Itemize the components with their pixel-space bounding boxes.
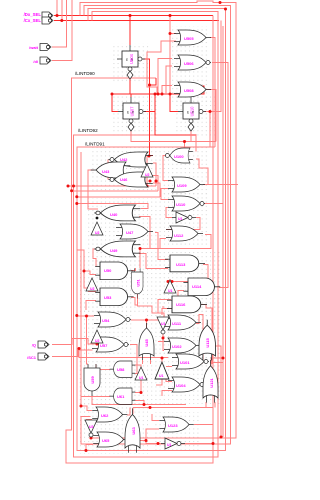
wire T12 in: [156, 379, 162, 385]
inverter T4 up: [86, 278, 98, 291]
svg-text:U42: U42: [120, 157, 128, 162]
svg-text:U504: U504: [129, 53, 134, 64]
svg-text:U54: U54: [102, 318, 110, 323]
inverter T11 up: [135, 367, 147, 380]
and gate U59 vertical down: [84, 364, 100, 396]
svg-text:U46: U46: [120, 177, 128, 182]
wire U65 in1: [91, 436, 93, 439]
wire U100 in1 riser: [195, 135, 197, 152]
wire /wait net: [52, 0, 66, 47]
wire U111 out: [196, 315, 203, 361]
svg-text:U1: U1: [178, 217, 183, 221]
svg-text:/wait: /wait: [29, 45, 39, 50]
wire U58 in1 T11: [135, 365, 141, 367]
svg-text:U45: U45: [144, 339, 149, 347]
svg-text:U2: U2: [95, 339, 100, 343]
inverter T12 up: [155, 362, 169, 379]
and gate U58 mirrored: [110, 361, 136, 377]
svg-text:U100: U100: [174, 154, 184, 159]
input pin /Cx_SEL: [42, 17, 53, 24]
wire U62 in1: [81, 406, 92, 411]
nor gate U100 mirrored: [165, 148, 192, 163]
wire FF1 clock: [129, 16, 131, 46]
wire FF1 Qbar to U42: [150, 85, 154, 156]
wire T3 out: [166, 218, 200, 230]
wire U53 in1: [88, 291, 96, 293]
nor gate U49 mirrored: [94, 241, 140, 257]
flip-flop U504: [117, 45, 145, 79]
svg-text:U65: U65: [102, 438, 110, 443]
svg-text:U40: U40: [110, 212, 118, 217]
wire branch x155: [154, 94, 156, 112]
wire U121 in1: [205, 402, 207, 408]
and gate U114: [183, 278, 220, 296]
wire T7 out: [163, 334, 164, 351]
inverter T2 up: [91, 222, 103, 235]
wire /di net: [52, 0, 72, 61]
wire U121 in2: [214, 402, 216, 408]
input pin /di: [40, 57, 51, 64]
svg-text:U510: U510: [190, 106, 195, 117]
svg-text:U104: U104: [176, 383, 186, 388]
nor gate U40 mirrored: [94, 205, 140, 221]
or gate U508: [174, 82, 211, 97]
wire U506 in1: [158, 59, 172, 95]
wire U112 in2: [160, 239, 166, 249]
wire y190 horizontal: [72, 190, 158, 192]
wire top stub A: [56, 0, 58, 16]
wire U59 out y404: [92, 397, 186, 405]
inverter T7 down: [157, 317, 169, 334]
and gate U116: [167, 296, 207, 313]
wire branch to U59: [87, 316, 89, 364]
wire T1 out: [147, 156, 150, 163]
wire U112 out to U49: [139, 235, 211, 249]
wire U54 in1: [77, 315, 94, 317]
svg-text:U49: U49: [110, 248, 118, 253]
svg-text:U1: U1: [168, 289, 173, 293]
wire U46 in2: [153, 183, 160, 197]
svg-text:U2: U2: [89, 425, 94, 429]
wire FF3 D riser: [170, 94, 178, 112]
wire y196 horizontal: [77, 196, 160, 198]
junction dots: [56, 14, 59, 17]
svg-text:U2: U2: [145, 173, 150, 177]
nor gate U54: [94, 312, 131, 327]
wire U116 in2 jog: [163, 306, 171, 309]
wire T1 in: [146, 177, 148, 186]
wire T3 in: [166, 208, 172, 218]
wire U116 out: [201, 305, 212, 361]
nor gate U62: [92, 407, 127, 422]
wire U61 in1 T11: [135, 380, 141, 393]
and gate U51 vertical down: [131, 268, 143, 298]
wire U47 out to U113: [155, 233, 168, 260]
svg-text:U508: U508: [184, 88, 194, 93]
wire FF2 D input: [112, 94, 118, 112]
svg-text:/LINTD90: /LINTD90: [75, 71, 95, 76]
svg-text:U116: U116: [176, 302, 186, 307]
wire pin2 horizontal: [54, 20, 219, 22]
wire U104 in1: [166, 376, 172, 382]
flip-flop U507: [118, 97, 146, 131]
wire U51 out staircase: [138, 294, 165, 319]
wire U104 in2: [162, 391, 172, 397]
wire T10 out: [185, 443, 213, 445]
wire U102 out: [201, 346, 221, 437]
wire U58 out: [96, 364, 110, 370]
svg-text:U112: U112: [174, 233, 184, 238]
wire FF3 Qbar comb: [204, 21, 221, 112]
nor gate U506: [174, 55, 211, 70]
wire FF2 Qbar: [144, 112, 196, 149]
svg-text:U58: U58: [117, 367, 125, 372]
svg-text:U109: U109: [177, 183, 187, 188]
wire U508 in2: [170, 93, 172, 95]
or gate U65: [93, 432, 128, 447]
svg-text:/Dx_SEL: /Dx_SEL: [24, 12, 42, 17]
wire U40 in1: [77, 204, 148, 209]
wire U115 in tails: [202, 360, 212, 364]
wire U62 out: [127, 408, 130, 416]
wire /Q net: [52, 339, 97, 345]
svg-text:U111: U111: [172, 321, 182, 326]
nor gate U42 mirrored: [108, 152, 152, 167]
wire U53 out: [131, 298, 138, 306]
wire y141 branch down: [184, 142, 186, 149]
nor gate U110: [168, 196, 205, 211]
inverter T3 right: [172, 212, 196, 223]
wire ring net 2: [81, 6, 231, 445]
svg-text:U59: U59: [90, 376, 95, 384]
svg-text:U57: U57: [100, 343, 108, 348]
input pin /wait: [40, 44, 51, 51]
svg-text:U62: U62: [101, 413, 109, 418]
svg-text:U123: U123: [168, 423, 178, 428]
or gate U111: [164, 315, 201, 330]
wire U61 in2: [135, 401, 144, 405]
wire U57 out to U58: [130, 345, 137, 374]
or gate U505: [174, 30, 211, 45]
wire left vertical 4: [80, 152, 82, 406]
or gate U102: [164, 338, 201, 353]
input pin /Q: [38, 341, 49, 348]
svg-text:U50: U50: [104, 268, 112, 273]
wire T5 out stub: [169, 279, 171, 282]
wire ring net 4 /LINTD92: [73, 12, 218, 457]
wire U114 in2: [172, 291, 184, 300]
svg-text:U61: U61: [117, 394, 125, 399]
wire U46 in1: [153, 176, 158, 191]
and gate U50: [95, 262, 133, 280]
wire T12 out stub: [161, 358, 163, 363]
wire /SC1 net: [52, 350, 92, 357]
wire U51 in2 riser: [139, 249, 141, 269]
svg-text:U101: U101: [180, 360, 190, 365]
wire pin1 horizontal: [54, 15, 213, 17]
svg-text:U1: U1: [167, 443, 172, 447]
wire ring net 1: [80, 1, 236, 438]
or gate U115 vertical up: [199, 320, 216, 361]
inverter T5 up: [164, 280, 176, 293]
svg-text:U1: U1: [161, 322, 166, 326]
wire U62 in2: [86, 419, 92, 421]
wire FF2 clock: [130, 94, 132, 97]
wire x76 elbow: [77, 250, 96, 288]
wire FF3 diamond: [190, 131, 192, 142]
wire U101 in2: [166, 366, 172, 368]
wire T10 in: [146, 441, 161, 444]
and gate U53: [95, 288, 133, 306]
or gate U109: [168, 177, 205, 192]
inverter T10 right: [161, 438, 185, 449]
svg-text:U121: U121: [209, 377, 214, 387]
wire U116 in1 riser: [158, 300, 171, 314]
or gate U112: [166, 226, 203, 241]
wire U116 in2: [162, 309, 172, 316]
or gate U121 vertical up: [203, 360, 218, 403]
wire FF3 Qbar to LINTD91: [210, 112, 215, 148]
svg-text:U2: U2: [95, 231, 100, 235]
wire U506 in2: [166, 66, 172, 94]
svg-text:U43: U43: [102, 169, 110, 174]
wire U104 out: [204, 384, 206, 386]
wire U50 out: [131, 268, 136, 271]
wire U123 in1: [152, 414, 159, 421]
svg-text:U53: U53: [104, 295, 112, 300]
wire y186 horizontal: [68, 185, 156, 187]
wire U102 in1: [158, 341, 164, 343]
wire U65 in2: [86, 445, 93, 451]
svg-text:/di: /di: [33, 59, 38, 64]
wire U505 in2: [147, 41, 176, 94]
wire U113 out to U114: [168, 265, 208, 282]
wire U63 out stub: [132, 408, 134, 415]
wire U42 in2: [153, 163, 156, 186]
wire FF1 bottom: [129, 79, 131, 94]
svg-text:E: E: [126, 58, 128, 62]
wire FF1 Qbar to LINTD90: [143, 59, 156, 85]
inverter T6 up: [91, 330, 103, 343]
inverter T1 up: [141, 164, 153, 177]
wire U505 in1: [170, 33, 176, 35]
svg-text:U114: U114: [192, 284, 202, 289]
wire U101 out comb: [210, 26, 223, 363]
nor gate U46 mirrored: [108, 172, 152, 187]
wire y94 horizontal: [112, 86, 204, 97]
svg-text:U115: U115: [205, 338, 210, 348]
or gate U63 vertical up: [125, 408, 140, 452]
or gate U43 mirrored: [91, 162, 131, 178]
wire U109 in2 jog: [161, 189, 168, 200]
wire U49 in2 to U113: [139, 254, 168, 269]
svg-text:U506: U506: [184, 61, 194, 66]
or gate U47: [116, 224, 153, 239]
wire U110 out: [204, 204, 223, 438]
wire U111 in1: [158, 318, 164, 320]
wire top stub B: [61, 0, 63, 21]
wire U505 out: [210, 38, 215, 148]
wire U45 out: [146, 320, 148, 328]
input pin /SC1: [38, 353, 49, 360]
wire T12 out: [79, 349, 168, 358]
nor gate U104: [168, 377, 205, 392]
svg-text:/Q: /Q: [32, 343, 36, 348]
wire U53 in2: [86, 301, 96, 311]
svg-text:U113: U113: [176, 262, 186, 267]
nor gate U57: [92, 337, 129, 352]
and gate U113: [165, 255, 205, 272]
or gate U123: [159, 417, 193, 432]
svg-text:/Cx_SEL: /Cx_SEL: [24, 18, 42, 23]
wire U508 in1: [162, 86, 172, 95]
wire y407 horizontal: [133, 408, 213, 425]
wire U508 out: [206, 90, 216, 142]
svg-text:U2: U2: [90, 287, 95, 291]
wire U49 out: [93, 249, 98, 266]
input pin /Dx_SEL: [42, 12, 53, 19]
svg-text:U505: U505: [184, 36, 194, 41]
wire ring net 3 /LINTD91: [77, 9, 226, 451]
flip-flop U510: [178, 97, 206, 131]
wire FF2 diamond to y141: [131, 131, 216, 142]
and gate U61 mirrored: [110, 388, 136, 404]
wire U46 out jog: [108, 175, 126, 180]
svg-text:U51: U51: [136, 279, 141, 287]
or gate U45 vertical up: [139, 323, 154, 360]
wire U65 out to U123: [128, 429, 159, 441]
wire U42 out jog: [108, 160, 126, 166]
svg-text:/SC1: /SC1: [27, 355, 37, 360]
wire U40 in2: [139, 217, 150, 249]
svg-text:/LINTD91: /LINTD91: [85, 142, 105, 147]
svg-text:U63: U63: [131, 427, 136, 435]
wire U45 in tails: [143, 360, 151, 364]
wire ring net 5 /LINTD90: [66, 16, 213, 464]
wire U43 out: [88, 170, 98, 209]
svg-text:U507: U507: [130, 106, 135, 117]
wire U61 out: [81, 397, 110, 407]
svg-text:/LINTD92: /LINTD92: [78, 128, 98, 133]
svg-text:U47: U47: [126, 230, 134, 235]
nor gate U101: [172, 354, 209, 369]
svg-text:U1: U1: [159, 374, 164, 378]
wire U54 out: [131, 317, 162, 320]
wire U109 out to U100 in2: [196, 159, 238, 185]
svg-text:U110: U110: [176, 202, 186, 207]
wire U506 out comb: [212, 63, 228, 288]
wire U121 out comb: [211, 358, 223, 366]
inverter T8 down: [85, 420, 97, 437]
wire U100 out to U109: [163, 156, 168, 181]
svg-text:U102: U102: [172, 344, 182, 349]
svg-text:U1: U1: [139, 376, 144, 380]
wire riser x170: [169, 16, 171, 95]
